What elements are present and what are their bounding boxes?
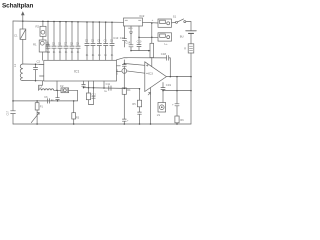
transistor Q2 box: [42, 36, 44, 40]
IC1 left pin stub 2: [40, 75, 44, 77]
wire IC2 out to jack: [143, 21, 159, 24]
switch S1: [172, 22, 176, 24]
capacitor C14 (IC2 out): [137, 26, 141, 51]
wire tuned circuit top: [23, 63, 44, 65]
svg-text:C10: C10: [137, 39, 142, 43]
trimmer capacitor C1: [22, 21, 24, 29]
ceramic filter F3: [61, 88, 69, 93]
inductor L1: [20, 64, 23, 81]
resistor R5 chain: [139, 89, 141, 101]
regulator IC2: [124, 18, 143, 26]
svg-text:C12: C12: [91, 93, 96, 96]
wire bias line: [163, 90, 191, 92]
wire jack2 feed: [139, 36, 158, 38]
svg-text:C17: C17: [6, 110, 9, 115]
capacitor C6 drop: [56, 90, 60, 101]
svg-text:Schaltplan: Schaltplan: [2, 3, 34, 10]
svg-text:C16: C16: [115, 69, 119, 75]
capacitor C19: [161, 83, 165, 91]
antenna: [22, 14, 24, 22]
wire supply drop: [151, 23, 153, 43]
svg-text:C18: C18: [161, 52, 167, 56]
wire F3 to pot branch: [69, 90, 78, 101]
jack BU2: [158, 33, 172, 41]
svg-text:L1: L1: [13, 63, 17, 67]
svg-text:F2: F2: [60, 84, 64, 88]
capacitor beside Q2: [46, 42, 49, 50]
junction dots: [12, 20, 192, 124]
electrolytic C16: [122, 60, 126, 89]
capacitor C5 series in branch: [48, 99, 50, 104]
resistor R3: [73, 101, 75, 113]
wire to op-amp input +: [124, 64, 145, 66]
wire tuned circuit bottom: [23, 80, 44, 82]
jack BU1: [158, 19, 172, 27]
svg-text:C11: C11: [106, 83, 111, 86]
svg-text:IC1: IC1: [74, 70, 79, 74]
svg-text:GND: GND: [128, 28, 133, 30]
resistor network below IC1: [88, 81, 90, 93]
inductor L2: [39, 81, 43, 90]
wire top rail: [13, 21, 124, 22]
feedback capacitor C18: [117, 58, 167, 60]
svg-text:C1: C1: [14, 34, 18, 38]
electrolytic C20: [175, 77, 179, 116]
svg-text:IC3: IC3: [148, 72, 153, 76]
IC1 bottom pin with cap: [82, 81, 86, 88]
resistor R6: [175, 116, 179, 123]
wire bottom rail: [13, 123, 191, 125]
tiny component labels: [6, 14, 186, 123]
svg-text:L2: L2: [39, 85, 43, 89]
loudspeaker LS: [162, 91, 164, 103]
capacitor C17 in left frame: [11, 111, 16, 114]
potentiometer R2: [36, 101, 38, 103]
svg-text:S1: S1: [173, 15, 177, 19]
svg-text:C2: C2: [37, 60, 41, 64]
svg-text:C13: C13: [113, 36, 119, 40]
wire to op-amp input -: [127, 71, 145, 73]
svg-text:BU: BU: [180, 35, 184, 39]
capacitor C2 tuning: [33, 64, 37, 81]
capacitor C13a (IC2 in): [123, 26, 127, 47]
IC1 right pin stubs: [117, 66, 122, 72]
wire output tap to rail: [150, 88, 152, 124]
svg-text:C15: C15: [120, 36, 126, 40]
battery BU: [186, 30, 197, 32]
IC1 body: [44, 60, 117, 81]
gnd stub IC2: [129, 26, 132, 33]
svg-text:IC2: IC2: [140, 14, 145, 18]
svg-text:C14: C14: [125, 40, 130, 44]
wire output: [166, 76, 191, 78]
IC1 left pin stub 1: [39, 63, 44, 65]
capacitor C11 series: [109, 86, 111, 91]
resistor R8 (supply): [150, 43, 154, 57]
svg-text:R: R: [184, 48, 186, 51]
wire left frame: [12, 21, 14, 110]
svg-text:C19: C19: [166, 83, 172, 87]
resistor R7 below battery: [188, 44, 194, 53]
wire gnd bus: [131, 50, 150, 52]
resistor R4: [122, 88, 126, 94]
transistor Q1 box: [42, 21, 44, 26]
capacitor row drops to IC1 top: [46, 21, 114, 60]
IC1 pin drop to audio bus: [103, 81, 105, 88]
svg-text:R2: R2: [36, 25, 40, 29]
svg-text:R1: R1: [33, 43, 37, 47]
op-amp IC3: [145, 62, 167, 92]
wire audio bus: [84, 88, 140, 89]
wire pot branch: [13, 100, 78, 102]
svg-text:L+: L+: [165, 42, 169, 46]
wire IC1 pin to L2 node: [56, 81, 58, 90]
svg-text:LS: LS: [157, 113, 160, 117]
